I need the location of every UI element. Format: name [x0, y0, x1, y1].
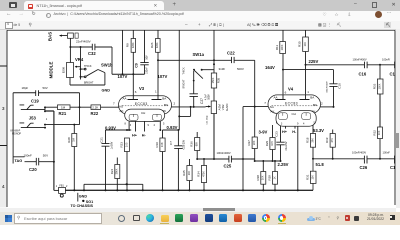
- svg-text:B20K: B20K: [62, 67, 66, 74]
- resistor R29 1K5: [265, 125, 275, 161]
- svg-text:0.93V: 0.93V: [167, 125, 178, 130]
- wire V3a cathode net: [106, 129, 132, 131]
- svg-text:1: 1: [56, 185, 58, 188]
- svg-text:GAIN: GAIN: [225, 104, 229, 111]
- svg-text:R35: R35: [217, 77, 221, 83]
- resistor R23 1K5: [119, 138, 129, 190]
- resistor R28 1M: [67, 124, 77, 191]
- svg-text:CH: CH: [141, 111, 145, 115]
- ground SG1 TO CHASSIS: [71, 193, 94, 208]
- svg-text:10K: 10K: [188, 170, 191, 175]
- svg-text:C7: C7: [169, 141, 173, 145]
- capacitor C26 100nF/400V: [352, 151, 368, 171]
- svg-text:220K: 220K: [132, 42, 135, 48]
- svg-text:22u/25V: 22u/25V: [285, 141, 288, 150]
- svg-text:68K: 68K: [196, 141, 199, 146]
- svg-text:C24 250p: C24 250p: [206, 115, 208, 125]
- capacitor C20 100nF 50V: [24, 153, 55, 172]
- svg-text:1K5: 1K5: [125, 142, 128, 147]
- resistor R9 220K: [126, 30, 136, 74]
- svg-text:22K: 22K: [253, 140, 256, 145]
- svg-text:AK: AK: [271, 109, 275, 113]
- svg-text:2: 2: [66, 185, 68, 188]
- capacitor C23 22u/25V: [275, 125, 288, 161]
- svg-text:ECC83: ECC83: [135, 102, 148, 106]
- resistor R27 22K: [247, 137, 257, 149]
- tube V3 cathode labels: [120, 109, 167, 113]
- svg-text:ECC83: ECC83: [285, 102, 298, 106]
- svg-text:BRIGHT: BRIGHT: [84, 81, 94, 84]
- svg-text:V3: V3: [139, 86, 145, 91]
- svg-text:THICK: THICK: [182, 67, 185, 75]
- wire V3 heater pins: [136, 121, 145, 131]
- svg-text:10K: 10K: [262, 175, 265, 180]
- svg-text:10K: 10K: [311, 175, 314, 180]
- wire V3 cathode A drop: [128, 121, 130, 130]
- wire SW1a feed riser: [213, 30, 215, 73]
- wire input box left edge: [12, 93, 14, 157]
- resistor R32 10K: [373, 127, 383, 160]
- svg-text:2.25V: 2.25V: [278, 162, 289, 167]
- resistor R22 2.2K: [91, 105, 120, 116]
- svg-text:R18: R18: [305, 137, 309, 143]
- wire V4 grid feed: [243, 107, 268, 191]
- svg-text:TAG: TAG: [15, 159, 23, 163]
- svg-text:50V: 50V: [43, 153, 48, 157]
- svg-text:1: 1: [307, 90, 309, 94]
- wire V3a plate to tube pin 6: [132, 74, 134, 94]
- svg-text:3-9V: 3-9V: [259, 130, 268, 135]
- tube V4 plate A (pin 6): [274, 91, 287, 100]
- capacitor C18 100nF (cut): [383, 151, 397, 171]
- tube V3 grid B (pin 2): [164, 102, 176, 107]
- node V3b plate junction: [157, 59, 159, 61]
- svg-text:BRIGHT: BRIGHT: [182, 79, 185, 89]
- svg-text:R21: R21: [59, 111, 67, 116]
- resistor R10 1K8: [155, 130, 165, 190]
- svg-text:R24: R24: [110, 168, 114, 174]
- svg-text:7: 7: [264, 101, 266, 105]
- pdf toolbar: [0, 21, 400, 30]
- svg-text:H-: H-: [142, 134, 147, 138]
- wire 51.8 rail: [313, 158, 394, 160]
- capacitor C27 4.7nF 500V: [190, 81, 211, 107]
- svg-text:GND: GND: [102, 89, 111, 93]
- svg-text:AG: AG: [270, 105, 275, 109]
- svg-text:18pF: 18pF: [22, 86, 29, 90]
- resistor R11 100K: [275, 30, 286, 69]
- svg-text:6: 6: [135, 90, 137, 94]
- svg-text:VR4: VR4: [75, 57, 84, 62]
- svg-text:39K: 39K: [311, 138, 314, 143]
- svg-text:BAS: BAS: [48, 32, 53, 41]
- potentiometer VR4 MIDDLE B20K: [49, 57, 105, 85]
- svg-text:220K: 220K: [156, 42, 159, 48]
- svg-text:R38: R38: [256, 175, 260, 181]
- pdf scrollbars: [396, 29, 400, 208]
- tube V4 plate B (pin 1): [300, 90, 315, 99]
- svg-text:51.8: 51.8: [316, 162, 325, 167]
- svg-text:C20: C20: [29, 167, 37, 172]
- svg-text:C32: C32: [88, 51, 96, 56]
- tube V3 heater box: [125, 109, 166, 127]
- svg-text:MIDDLE: MIDDLE: [49, 62, 54, 79]
- capacitor C32 22nF/400V: [76, 39, 112, 74]
- svg-text:R30: R30: [298, 41, 302, 47]
- node input junction: [79, 106, 81, 108]
- svg-text:C27: C27: [200, 98, 204, 104]
- svg-text:1: 1: [46, 117, 48, 121]
- svg-text:V4: V4: [288, 87, 294, 92]
- resistor R19 47K: [325, 130, 335, 160]
- browser tab bar: [0, 0, 400, 11]
- svg-text:9: 9: [148, 124, 150, 127]
- svg-text:R31: R31: [305, 174, 309, 180]
- wire VR4 wiper to switch: [80, 47, 82, 80]
- svg-text:R9: R9: [126, 43, 130, 47]
- frame grid tick row 3/4: [0, 66, 7, 146]
- svg-text:THICK: THICK: [84, 65, 92, 68]
- tube V4 heater box: [276, 111, 316, 127]
- jack J53: [20, 105, 47, 121]
- svg-text:AA: AA: [123, 97, 127, 101]
- svg-text:BA: BA: [162, 97, 166, 101]
- svg-text:BG: BG: [313, 103, 318, 107]
- svg-text:8: 8: [125, 123, 127, 126]
- resistor R36 68K: [190, 132, 200, 159]
- svg-text:R36: R36: [190, 141, 194, 147]
- wire VR2 bottom thick: [213, 114, 215, 160]
- svg-text:100nF/400V: 100nF/400V: [326, 81, 328, 93]
- capacitor C21 1u/50V: [100, 130, 114, 190]
- switch SW1a: [182, 52, 214, 89]
- svg-text:AK: AK: [120, 109, 124, 113]
- jack J54 KPI-89-P MONOP: [11, 117, 80, 136]
- wire C22 drop column: [254, 60, 256, 161]
- svg-text:1M: 1M: [73, 138, 76, 141]
- resistor R39 1K: [268, 160, 278, 190]
- wire heater supply riser: [178, 30, 180, 130]
- capacitor C25 100nF/400V: [217, 151, 232, 169]
- wire V3b plate to tube pin 1: [157, 60, 159, 94]
- svg-text:C25: C25: [224, 164, 232, 169]
- resistor R24 390K: [110, 158, 120, 191]
- svg-text:CH: CH: [292, 112, 296, 116]
- svg-text:4: 4: [154, 124, 156, 127]
- svg-text:10K: 10K: [304, 42, 307, 47]
- svg-text:C23: C23: [275, 131, 279, 137]
- wire V3 cathode B drop: [159, 121, 161, 130]
- capacitor C22 3n3F 500V: [219, 51, 255, 72]
- svg-text:10K: 10K: [378, 130, 381, 135]
- tube V3 ECC83 envelope: [119, 86, 172, 114]
- svg-text:SW1b: SW1b: [101, 62, 113, 67]
- taskbar: [0, 212, 400, 226]
- svg-text:AA: AA: [274, 95, 278, 99]
- svg-text:C21: C21: [100, 137, 104, 143]
- svg-text:2.2K: 2.2K: [92, 106, 98, 110]
- svg-text:2: 2: [174, 102, 176, 106]
- svg-text:R26: R26: [150, 42, 154, 48]
- wire mono jack thick drop: [45, 111, 54, 190]
- wire 164V to C10: [283, 70, 334, 95]
- svg-text:C9: C9: [135, 63, 139, 68]
- node V4 grid B / C10 junction: [333, 106, 335, 108]
- svg-text:R32: R32: [373, 130, 377, 136]
- wire HT feed left: [122, 30, 124, 74]
- node bass wiper junction: [69, 46, 71, 48]
- schematic border frame right: [394, 30, 396, 205]
- schematic border frame top: [7, 29, 395, 31]
- svg-text:BA: BA: [310, 95, 314, 99]
- svg-text:1K5: 1K5: [271, 141, 274, 146]
- svg-text:7: 7: [113, 102, 115, 106]
- page margin strip: [0, 28, 7, 207]
- wire heater riser link: [179, 107, 190, 117]
- tube V3 grid A (pin 7): [113, 102, 124, 109]
- svg-text:3n3F: 3n3F: [219, 67, 226, 71]
- svg-text:100nF/400V: 100nF/400V: [217, 151, 231, 155]
- svg-text:C26: C26: [360, 165, 368, 170]
- wire V3b grid to VR2: [171, 106, 205, 108]
- resistor R33 100K: [372, 65, 383, 127]
- net V4 H+ H-: [282, 126, 297, 134]
- svg-text:5: 5: [163, 123, 165, 126]
- resistor R31 10K: [305, 159, 316, 191]
- svg-text:22nF/400V: 22nF/400V: [76, 39, 91, 43]
- svg-text:100nF: 100nF: [383, 151, 391, 155]
- capacitor C9 100nF 50V: [135, 30, 149, 74]
- svg-text:100nF/400V: 100nF/400V: [353, 58, 367, 62]
- address row: [0, 11, 400, 22]
- svg-text:J53: J53: [29, 116, 37, 121]
- tube V4 ECC83 envelope: [268, 87, 321, 114]
- svg-text:C19: C19: [31, 99, 39, 104]
- svg-text:BG: BG: [164, 103, 169, 107]
- svg-text:R39: R39: [268, 175, 272, 181]
- svg-text:R19: R19: [325, 137, 329, 143]
- resistor R30 10K: [298, 30, 309, 94]
- wire C19 bypass corner: [79, 93, 81, 125]
- svg-text:SW1a: SW1a: [193, 52, 205, 57]
- svg-text:50V: 50V: [43, 86, 48, 90]
- svg-text:6: 6: [285, 91, 287, 95]
- svg-text:500V: 500V: [237, 67, 244, 71]
- ground bus: [65, 189, 313, 191]
- svg-text:H+: H+: [282, 130, 288, 134]
- resistor R35 150K: [211, 73, 220, 101]
- node TAG: [13, 157, 24, 164]
- svg-text:53.3V: 53.3V: [313, 128, 324, 133]
- svg-text:R25: R25: [182, 170, 186, 176]
- resistor R21 1M: [45, 105, 91, 116]
- svg-text:+22u/25V: +22u/25V: [183, 139, 186, 150]
- svg-text:H+: H+: [132, 134, 138, 138]
- svg-text:100nF/400V: 100nF/400V: [352, 151, 366, 155]
- svg-text:C16: C16: [359, 72, 367, 77]
- svg-text:107V: 107V: [158, 74, 168, 79]
- svg-text:R27: R27: [247, 140, 251, 146]
- svg-text:C10: C10: [338, 83, 342, 89]
- svg-text:500V: 500V: [208, 94, 211, 100]
- svg-text:2: 2: [321, 102, 323, 106]
- svg-text:R23: R23: [119, 142, 123, 148]
- svg-text:100nF/: 100nF/: [382, 58, 390, 62]
- tube V4 cathode labels: [271, 109, 316, 113]
- svg-text:225V: 225V: [309, 59, 319, 64]
- svg-text:150K: 150K: [212, 77, 215, 83]
- potentiometer VR2 A1M GAIN: [206, 101, 230, 114]
- svg-text:470K: 470K: [202, 171, 205, 177]
- capacitor C7 22u/25V: [169, 130, 185, 190]
- svg-text:AG: AG: [119, 105, 124, 109]
- wire V4 cathode row: [255, 160, 281, 162]
- svg-text:1u/50V: 1u/50V: [110, 141, 113, 149]
- wire 225V rail: [306, 64, 395, 66]
- node R23/ground link junction: [126, 183, 128, 185]
- svg-text:100K: 100K: [379, 83, 382, 89]
- svg-text:FB1: FB1: [59, 185, 64, 188]
- ground bus junctions: [73, 189, 75, 191]
- schematic border frame left: [6, 30, 8, 207]
- tube V3 plate A (pin 6): [123, 90, 139, 101]
- svg-text:1K: 1K: [273, 176, 276, 179]
- resistor R25 10K: [182, 159, 192, 190]
- svg-text:100K: 100K: [281, 44, 284, 50]
- potentiometer VR5 BASS: [48, 32, 79, 47]
- capacitor C17 100nF (cut): [382, 58, 396, 77]
- svg-text:GND: GND: [79, 195, 88, 199]
- svg-text:164V: 164V: [265, 65, 275, 70]
- wire V3b cathode net: [163, 129, 180, 131]
- capacitor C10 100nF/400V: [326, 70, 341, 107]
- ferrite bead FB1: [54, 185, 68, 198]
- wire heater ground drop: [297, 125, 299, 190]
- tube V4 grid B (pin 2): [313, 102, 323, 107]
- resistor R18 39K: [305, 125, 315, 160]
- tube V4 grid A (pin 7): [264, 101, 274, 109]
- svg-text:50V: 50V: [146, 55, 149, 60]
- svg-text:R34: R34: [196, 171, 200, 177]
- svg-text:3: 3: [130, 124, 132, 127]
- svg-text:1K8: 1K8: [161, 142, 164, 147]
- capacitor C19 18pF 50V: [13, 86, 79, 104]
- wire bass node: [70, 47, 92, 63]
- svg-text:R29: R29: [265, 140, 269, 146]
- wire plate node V3a: [112, 73, 145, 75]
- node V3a plate junction: [132, 73, 134, 75]
- svg-text:390K: 390K: [116, 168, 119, 174]
- svg-text:MONOP: MONOP: [12, 132, 21, 135]
- wire cathode bias row: [197, 158, 255, 160]
- svg-text:R11: R11: [275, 45, 279, 51]
- capacitor C16 100nF/400V: [353, 58, 368, 77]
- svg-text:R33: R33: [372, 83, 376, 89]
- svg-text:R10: R10: [155, 142, 159, 148]
- svg-text:C22: C22: [227, 51, 235, 56]
- wire V4 pin2 to C10: [320, 106, 333, 108]
- svg-text:1M: 1M: [61, 106, 66, 110]
- resistor R34 470K: [196, 159, 206, 190]
- svg-text:100nF: 100nF: [146, 67, 149, 74]
- svg-text:1: 1: [155, 90, 157, 94]
- svg-text:R28: R28: [67, 137, 71, 143]
- wire V3b plate to SW1a/C22: [158, 59, 231, 61]
- ground bus link wire: [84, 184, 143, 190]
- tube V3 plate B (pin 1): [152, 90, 167, 101]
- svg-text:R22: R22: [91, 111, 99, 116]
- svg-text:47K: 47K: [331, 138, 334, 143]
- resistor R26 220K: [150, 30, 160, 60]
- switch SW1b THICK/BRIGHT: [81, 62, 114, 85]
- svg-text:100nF: 100nF: [24, 153, 33, 157]
- resistor R38 10K: [256, 160, 266, 190]
- svg-text:H-: H-: [292, 130, 297, 134]
